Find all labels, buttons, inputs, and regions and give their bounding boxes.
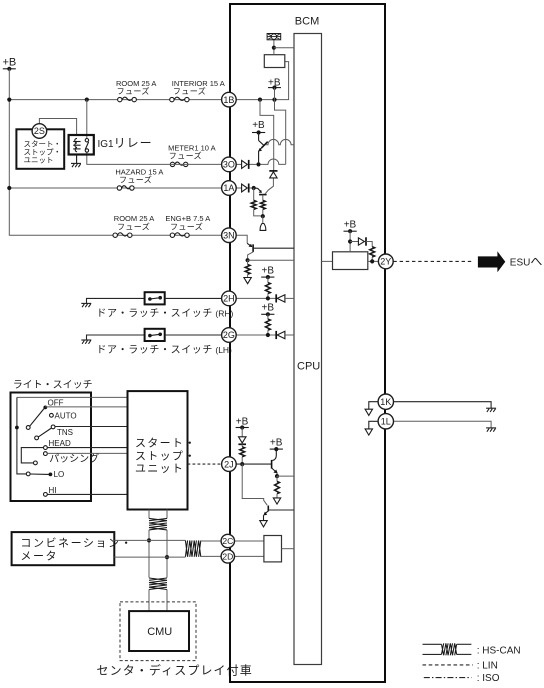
svg-text:2Y: 2Y bbox=[380, 257, 391, 267]
svg-text:2C: 2C bbox=[222, 536, 233, 546]
node +B (1B internal) bbox=[268, 78, 281, 100]
wire +B branch through IG1 relay contact to METER1/3O row bbox=[86, 100, 88, 139]
svg-text:+B: +B bbox=[262, 302, 275, 313]
wire 1K stub to signal ground bbox=[369, 402, 378, 410]
wire Q3 base to CPU bbox=[253, 247, 294, 249]
connector 2G bbox=[222, 328, 237, 343]
wire junction to bell terminal bbox=[262, 216, 264, 223]
wire meter to 2C (HS-CAN high) bbox=[114, 539, 185, 541]
wire 2D to CAN block bbox=[235, 555, 264, 557]
svg-text:+B: +B bbox=[262, 266, 275, 277]
contact passing bracket end bbox=[34, 461, 38, 465]
wire 1B internal rail bbox=[236, 62, 288, 100]
wire junction to diode bbox=[350, 241, 358, 243]
power monitor block (internal) bbox=[264, 55, 285, 68]
light switch pivot contact bbox=[26, 426, 30, 430]
signal ground triangle (3N) bbox=[244, 278, 251, 284]
wire 2J node to Q5 bbox=[242, 464, 267, 505]
resistor R4 (2H pull-up) bbox=[265, 277, 270, 298]
wire light switch common left bus bbox=[17, 397, 26, 474]
junction resistor to 2Y line bbox=[370, 259, 374, 263]
svg-text:: HS-CAN: : HS-CAN bbox=[477, 646, 521, 657]
contact HEAD bbox=[44, 446, 48, 450]
svg-text:ドア・ラッチ・スイッチ (RH): ドア・ラッチ・スイッチ (RH) bbox=[96, 307, 233, 319]
wire Q1 base to CPU with crossovers bbox=[266, 139, 294, 144]
svg-text:3O: 3O bbox=[223, 160, 235, 170]
wire +B bus vertical with branch to 3N row bbox=[9, 69, 221, 235]
wire HEAD to passing bracket bbox=[21, 448, 43, 463]
wire 1L stub to signal ground bbox=[369, 421, 378, 429]
svg-text:パッシング: パッシング bbox=[49, 452, 99, 465]
wire (LIN) 2Y to ESU bbox=[393, 260, 473, 262]
contact LO pivot bbox=[26, 472, 30, 476]
wire RH switch to 2H bbox=[165, 297, 222, 299]
ground (1L) bbox=[486, 428, 496, 432]
fuse METER1 10 A (3O row) bbox=[168, 143, 216, 166]
svg-text:ユニット: ユニット bbox=[24, 156, 54, 165]
svg-text:フューズ: フューズ bbox=[119, 175, 152, 185]
LIN driver block bbox=[333, 252, 368, 270]
wire HI position to unit bbox=[47, 493, 127, 495]
resistor R6 (2J series) bbox=[240, 444, 245, 464]
arrow to ESU bbox=[478, 251, 505, 272]
wire CPU to LIN driver block bbox=[322, 260, 333, 262]
wire 2S unit to IG1 relay coil bbox=[39, 119, 76, 136]
wire block to 2Y bbox=[368, 260, 379, 262]
legend HS-CAN twisted pair symbol bbox=[423, 643, 472, 655]
resistor R8 (LIN pull-up) bbox=[366, 242, 375, 262]
svg-text:ドア・ラッチ・スイッチ (LH): ドア・ラッチ・スイッチ (LH) bbox=[96, 344, 232, 356]
wire junction to CPU bbox=[274, 47, 294, 49]
junction block feed to CPU bbox=[272, 46, 276, 50]
resistor R1 (1A pull-down left) bbox=[251, 188, 261, 216]
svg-text:ユニット: ユニット bbox=[135, 463, 184, 475]
connector 2C bbox=[221, 534, 234, 547]
svg-text:1B: 1B bbox=[223, 95, 234, 105]
svg-text:+B: +B bbox=[270, 438, 283, 449]
CPU box bbox=[294, 34, 322, 665]
connector 2J bbox=[222, 457, 237, 472]
twisted pair symbol (vertical, upper) bbox=[149, 518, 167, 530]
junction 3O node bbox=[256, 162, 260, 166]
wire (LIN) start-stop unit to 2J bbox=[188, 463, 222, 465]
wire 3N node to CPU bbox=[248, 259, 294, 261]
svg-text:2H: 2H bbox=[223, 294, 235, 304]
svg-text:+B: +B bbox=[344, 220, 357, 231]
signal ground triangle (1L) bbox=[365, 429, 372, 435]
resistor R3 (3N pull-down) bbox=[245, 260, 250, 277]
wire OFF position to unit bbox=[45, 406, 127, 408]
legend ISO dash-dot line bbox=[424, 677, 472, 679]
svg-text:TNS: TNS bbox=[57, 428, 73, 437]
svg-text:: ISO: : ISO bbox=[477, 673, 500, 684]
wire passing position to unit bbox=[47, 452, 127, 454]
connector 1K bbox=[378, 394, 393, 409]
svg-text:CPU: CPU bbox=[297, 361, 320, 373]
resistor R2 (Q2 emitter) bbox=[260, 195, 265, 217]
connector 1B bbox=[222, 92, 237, 107]
node +B (2J series) bbox=[236, 416, 249, 429]
svg-text:1K: 1K bbox=[380, 397, 391, 407]
wire HEAD position to unit bbox=[47, 447, 127, 449]
legend LIN dashed line bbox=[423, 664, 473, 666]
wire Q5 base to CPU bbox=[268, 509, 294, 511]
contact LO (selected) bbox=[49, 473, 53, 477]
junction 2G node bbox=[266, 333, 270, 337]
svg-text:フューズ: フューズ bbox=[117, 86, 150, 96]
resistor R5 (2G pull-up) bbox=[265, 314, 270, 335]
node +B battery supply (top left) bbox=[3, 57, 17, 71]
door latch switch LH bbox=[145, 329, 165, 341]
svg-text:LO: LO bbox=[54, 470, 65, 479]
svg-text:HEAD: HEAD bbox=[49, 439, 71, 448]
junction 1B row to IG1 relay branch bbox=[85, 98, 89, 102]
diode D1 (3O input) bbox=[242, 160, 257, 169]
svg-text:3N: 3N bbox=[223, 230, 235, 240]
CAN transceiver block bbox=[264, 536, 282, 562]
wire LH switch to 2G bbox=[165, 334, 222, 336]
svg-text:OFF: OFF bbox=[48, 398, 64, 407]
CMU dashed option box bbox=[120, 602, 196, 661]
wire twisted pair mid section bbox=[148, 530, 150, 578]
node +B (2G pull-up) bbox=[261, 302, 274, 316]
svg-text:1A: 1A bbox=[223, 183, 234, 193]
fuse HAZARD 15 A (1A row) bbox=[115, 167, 163, 190]
junction resistor common bbox=[261, 214, 265, 218]
wire 2G line bbox=[236, 334, 276, 336]
node +B (2H pull-up) bbox=[261, 266, 274, 280]
wire TNS position to unit bbox=[55, 426, 128, 428]
ground (door latch RH) bbox=[81, 298, 144, 307]
svg-text:+B: +B bbox=[252, 120, 265, 131]
wire 2J line to Q4 base bbox=[236, 463, 271, 465]
signal ground triangle (Q5) bbox=[260, 521, 267, 527]
switch arm to OFF bbox=[30, 409, 44, 427]
CMU bbox=[129, 611, 189, 651]
connector 1L bbox=[378, 414, 393, 429]
light switch box bbox=[11, 393, 92, 502]
wire 1L to chassis ground bbox=[394, 421, 492, 428]
wire 1B supply row bbox=[9, 99, 221, 101]
fuse ROOM 25 A (1B row) bbox=[116, 79, 156, 102]
wire twist to 2C bbox=[201, 540, 221, 542]
junction light switch bus at pivot bbox=[15, 426, 19, 430]
wire 2H line bbox=[236, 297, 276, 299]
connector 3N bbox=[222, 228, 237, 243]
wire 3N into transistor bbox=[236, 235, 247, 243]
svg-text:+B: +B bbox=[3, 57, 17, 69]
wire block to oscillator symbol bbox=[273, 40, 275, 55]
wire 3O node crossover to pull-up column bbox=[261, 159, 286, 164]
svg-text:ストップ・: ストップ・ bbox=[135, 450, 197, 463]
svg-text:IG1リレー: IG1リレー bbox=[98, 136, 153, 150]
svg-text:2S: 2S bbox=[34, 126, 45, 136]
svg-text:フューズ: フューズ bbox=[173, 86, 206, 96]
transistor Q4 (2J, PNP) bbox=[270, 438, 283, 477]
transistor Q1 (3O sense, PNP) bbox=[252, 120, 268, 162]
fuse ROOM 25 A (3N row) bbox=[113, 214, 154, 237]
junction on +B bus at 1A row bbox=[7, 186, 11, 190]
svg-text:2J: 2J bbox=[224, 459, 234, 469]
wire 1B right junction down to 3O crossover column bbox=[275, 100, 286, 165]
svg-text:フューズ: フューズ bbox=[169, 151, 202, 161]
svg-text:CMU: CMU bbox=[147, 626, 172, 638]
contact passing bbox=[44, 452, 48, 456]
svg-text:コンビネーション・: コンビネーション・ bbox=[20, 536, 133, 549]
svg-text:ライト・スイッチ: ライト・スイッチ bbox=[13, 379, 93, 391]
wire 2C to CAN block bbox=[235, 540, 264, 542]
svg-text:ESUへ: ESUへ bbox=[510, 255, 543, 269]
ground (1K) bbox=[486, 408, 496, 412]
junction 2J node bbox=[240, 462, 244, 466]
connector 1A bbox=[222, 181, 237, 196]
junction 2H node bbox=[266, 296, 270, 300]
svg-text:フューズ: フューズ bbox=[117, 222, 150, 232]
switch arm LO bbox=[30, 473, 48, 475]
connector 3O bbox=[222, 157, 237, 172]
svg-text:メータ: メータ bbox=[20, 549, 58, 562]
svg-text:: LIN: : LIN bbox=[477, 660, 498, 671]
junction Q4 collector node bbox=[275, 474, 279, 478]
transistor Q5 (2J low side) bbox=[263, 506, 268, 521]
diode D7 (LIN pull-up) bbox=[358, 237, 366, 245]
wire meter to 2D (HS-CAN low) bbox=[114, 556, 185, 558]
diode D2 (1A input) bbox=[242, 184, 252, 193]
svg-text:BCM: BCM bbox=[295, 16, 319, 28]
wire light switch common top line to unit bbox=[17, 396, 128, 398]
wire 3O to diode bbox=[236, 163, 241, 165]
junction 1B rail (right, +B sense) bbox=[272, 98, 276, 102]
twisted pair symbol (horizontal, to 2C/2D) bbox=[185, 540, 200, 556]
junction 1A node bbox=[252, 186, 256, 190]
contact AUTO bbox=[50, 413, 54, 417]
svg-text:2D: 2D bbox=[222, 551, 233, 561]
start-stop unit (small, with 2S) bbox=[16, 129, 64, 169]
svg-text:1L: 1L bbox=[381, 417, 391, 427]
connector 2D bbox=[221, 550, 234, 563]
svg-text:フューズ: フューズ bbox=[170, 222, 203, 232]
IG1 relay bbox=[69, 135, 94, 155]
contact HI bbox=[44, 493, 48, 497]
resistor R7 (Q4 load) bbox=[275, 476, 280, 498]
fuse ENG+B 7.5 A (3N row) bbox=[165, 214, 210, 237]
signal ground triangle (Q4) bbox=[273, 498, 280, 504]
svg-text:スタート・: スタート・ bbox=[135, 436, 197, 449]
junction 1B rail (left) bbox=[258, 98, 262, 102]
connector 2Y bbox=[378, 254, 393, 269]
signal ground triangle (1K) bbox=[365, 409, 372, 415]
twisted pair symbol (vertical, lower) bbox=[149, 578, 167, 590]
start-stop unit (main) bbox=[128, 391, 197, 509]
wire twisted pair into CMU bbox=[148, 590, 150, 612]
oscillator/element symbol bbox=[267, 34, 281, 40]
wire +B to diode bbox=[241, 428, 243, 437]
diode D3 (clamp, pointing up) bbox=[269, 171, 277, 178]
fuse INTERIOR 15 A (1B row) bbox=[170, 79, 225, 102]
wire relay coil to ground bbox=[76, 155, 78, 164]
wire 1A supply row bbox=[9, 187, 221, 189]
BCM box bbox=[230, 4, 385, 682]
door latch switch RH bbox=[145, 292, 165, 304]
junction meter top wire to pair bbox=[147, 538, 151, 542]
connector 2S bbox=[32, 124, 47, 139]
transistor Q2 (1A input, NPN) bbox=[254, 178, 274, 195]
ground (door latch LH) bbox=[81, 335, 144, 344]
wire 1B left junction down to diode column bbox=[260, 100, 274, 171]
bell ground terminal bbox=[260, 224, 266, 231]
wire +B into block bbox=[349, 231, 351, 252]
svg-text:AUTO: AUTO bbox=[55, 411, 77, 420]
diode D4 (2H to CPU) bbox=[276, 294, 294, 302]
node +B (LIN pull-up) bbox=[344, 220, 357, 234]
wire Q4 collector to CPU bbox=[277, 475, 294, 477]
svg-text:HI: HI bbox=[49, 486, 57, 495]
wire twisted pair unit to meter junctions bbox=[148, 510, 150, 519]
junction +B / diode branch bbox=[348, 239, 352, 243]
junction 3N collector node bbox=[246, 258, 250, 262]
combination meter box bbox=[12, 532, 134, 565]
switch arm TNS pole bbox=[35, 425, 55, 440]
connector 2H bbox=[222, 291, 237, 306]
ground (IG1 relay) bbox=[71, 163, 81, 167]
contact OFF (selected) bbox=[43, 406, 47, 410]
wire 1A to diode bbox=[236, 187, 241, 189]
svg-text:2G: 2G bbox=[223, 330, 235, 340]
wire 1K to chassis ground bbox=[394, 402, 492, 409]
transistor Q3 (3N, PNP) bbox=[247, 243, 253, 258]
wire twist to 2D bbox=[201, 555, 221, 557]
wire CAN block to CPU bbox=[282, 548, 295, 550]
junction on +B bus at 1B row bbox=[7, 98, 11, 102]
diode D5 (2G to CPU) bbox=[276, 331, 294, 339]
junction meter bottom wire to pair bbox=[165, 555, 169, 559]
diode D6 (pointing down) bbox=[238, 437, 246, 445]
